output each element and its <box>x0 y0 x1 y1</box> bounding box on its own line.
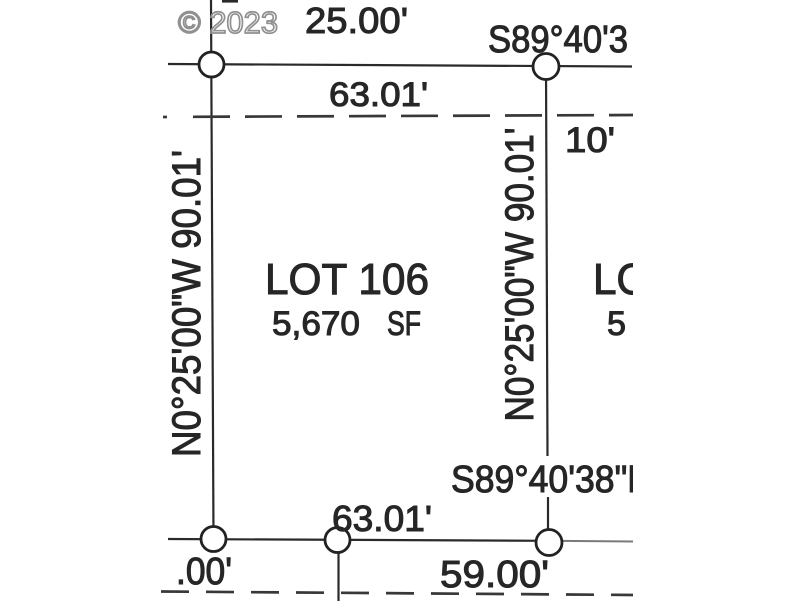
node: survey monument bottom-left <box>201 527 226 552</box>
svg-text:5: 5 <box>607 305 626 343</box>
svg-text:25.00': 25.00' <box>305 0 408 41</box>
svg-text:© 2023: © 2023 <box>178 5 278 40</box>
wire: setback dashed line top <box>163 116 167 119</box>
tick mark cut at top edge <box>222 0 238 3</box>
wire: middle boundary lot line upper segment (vertical) <box>546 66 548 456</box>
wire: setback dashed line bottom <box>161 592 636 596</box>
wire: left boundary lot line (vertical) <box>211 0 214 539</box>
svg-text:5,670: 5,670 <box>272 305 360 343</box>
svg-text:10': 10' <box>565 121 615 160</box>
node: survey monument bottom-middle <box>325 528 350 553</box>
svg-text:63.01': 63.01' <box>329 76 428 114</box>
svg-text:.00': .00' <box>176 551 232 593</box>
node: survey monument bottom-right <box>536 530 562 556</box>
svg-text:LOT 106: LOT 106 <box>265 255 429 304</box>
wire: bottom boundary lot line dark segment (horizontal) <box>168 539 546 541</box>
wire: top boundary street line (horizontal) <box>168 64 632 67</box>
svg-text:S89°40'3: S89°40'3 <box>488 19 628 61</box>
wire: lower lot division line (vertical) <box>337 540 339 601</box>
wire: setback dashed line top <box>193 115 637 117</box>
svg-text:N0°25'00"W 90.01': N0°25'00"W 90.01' <box>165 150 209 457</box>
svg-text:SF: SF <box>387 305 421 343</box>
node: survey monument top-left <box>199 52 224 77</box>
wire: middle boundary lot line lower segment (vertical) <box>547 497 549 543</box>
node: survey monument top-right <box>533 54 559 80</box>
svg-text:63.01': 63.01' <box>332 498 432 539</box>
svg-text:59.00': 59.00' <box>440 554 549 596</box>
svg-text:N0°25'00"W 90.01': N0°25'00"W 90.01' <box>498 128 542 422</box>
wire: bottom boundary lot line light segment (horizontal) <box>546 540 633 543</box>
svg-text:S89°40'38"E: S89°40'38"E <box>451 459 651 501</box>
